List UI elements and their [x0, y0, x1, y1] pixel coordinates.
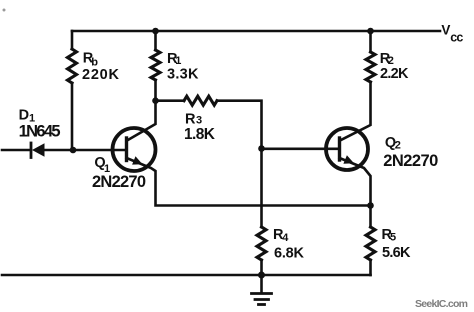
wire R1 bottom to Q1 collector [127, 80, 156, 141]
wire R1 top stub [154, 31, 157, 50]
resistor Rb [68, 49, 77, 83]
wire node to Q2 base [262, 148, 340, 151]
svg-text:1N645: 1N645 [19, 123, 61, 141]
svg-text:2N2270: 2N2270 [92, 173, 146, 191]
wire diode input stub [2, 149, 30, 152]
wire R3 left lead [156, 99, 185, 102]
junction dot emitter R5 node [367, 202, 374, 209]
resistor R1 [151, 50, 160, 80]
svg-text:V: V [441, 22, 450, 37]
wire R5 bottom stub [369, 260, 372, 275]
wire left vertical above Rb [71, 31, 74, 49]
svg-text:6.8K: 6.8K [274, 246, 305, 262]
svg-text:5: 5 [390, 232, 396, 244]
wire Q1 emitter down and across [127, 158, 371, 206]
svg-text:3.3K: 3.3K [167, 66, 199, 82]
transistor Q2 base bar [338, 138, 341, 160]
svg-text:2N2270: 2N2270 [383, 152, 438, 170]
svg-text:4: 4 [282, 232, 289, 244]
svg-text:cc: cc [450, 30, 463, 44]
svg-text:1.8K: 1.8K [184, 126, 216, 143]
svg-text:1: 1 [175, 55, 181, 67]
svg-text:SeekIC.com: SeekIC.com [415, 298, 468, 310]
svg-text:2.2K: 2.2K [380, 66, 409, 82]
svg-text:220K: 220K [82, 67, 120, 83]
ground stub [260, 275, 263, 293]
diode D1 triangle [32, 143, 45, 157]
resistor R2 [366, 52, 375, 82]
svg-text:3: 3 [196, 115, 202, 127]
junction dot top rail R1 [152, 28, 159, 35]
wire left vertical below Rb [71, 83, 74, 150]
wire top Vcc rail [72, 30, 440, 33]
wire bottom rail [2, 274, 371, 277]
wire R3 right lead and corner down [217, 101, 262, 149]
junction dot ground node [258, 272, 265, 279]
junction dot diode node [70, 147, 77, 154]
wire emitter node to R5 [369, 206, 372, 228]
transistor Q1 base bar [125, 138, 128, 161]
svg-text:D: D [19, 107, 29, 123]
wire R2 top stub [369, 31, 372, 52]
ground bar 1 [252, 292, 272, 295]
wire diode to Q1 base [44, 149, 127, 152]
diode D1 cathode bar [30, 143, 33, 158]
wire node down through R4 branch [260, 149, 263, 228]
ground bar 2 [255, 298, 269, 301]
svg-text:2: 2 [395, 140, 401, 152]
wire R2 bottom to Q2 collector [340, 82, 371, 141]
ground bar 3 [259, 303, 265, 306]
junction dot R3 Q2 base node [258, 145, 265, 152]
junction dot top rail R2 [367, 28, 374, 35]
resistor R3 [184, 96, 217, 105]
transistor Q2 emitter arrow [343, 155, 354, 163]
wire R4 bottom stub [260, 260, 263, 275]
resistor R4 [257, 227, 266, 260]
junction dot R1 R3 node [152, 97, 159, 104]
resistor R5 [366, 227, 375, 260]
transistor Q1 circle [113, 128, 156, 171]
wire Q2 emitter down [340, 158, 371, 206]
transistor Q2 circle [326, 128, 368, 170]
scan speck top left [3, 9, 6, 12]
transistor Q1 emitter arrow [132, 156, 142, 164]
svg-text:5.6K: 5.6K [382, 245, 411, 261]
